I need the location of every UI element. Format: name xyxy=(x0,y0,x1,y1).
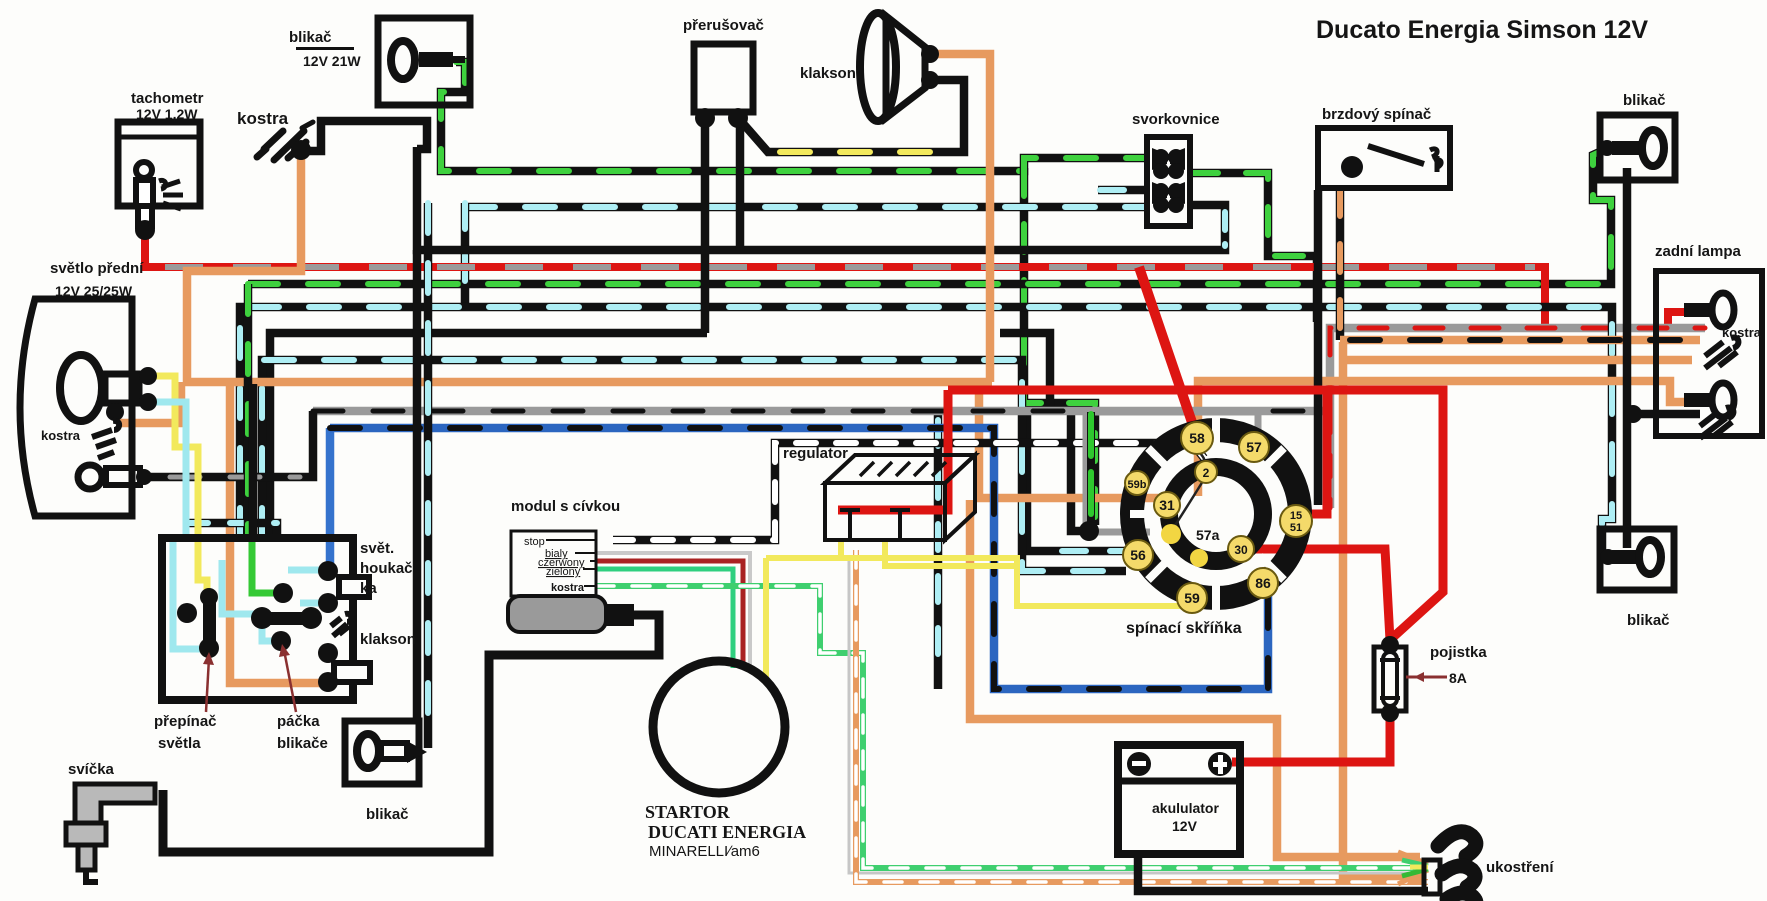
wire black interruptor right pin to bus xyxy=(736,122,745,250)
wire black interruptor left pin down xyxy=(701,118,710,333)
svg-text:12V 21W: 12V 21W xyxy=(303,53,361,69)
coil xyxy=(508,596,606,632)
svg-text:stop: stop xyxy=(524,536,545,548)
wire red fuse to battery plus xyxy=(1232,714,1390,762)
svg-text:86: 86 xyxy=(1255,575,1271,591)
svg-text:tachometr: tachometr xyxy=(131,90,204,107)
svg-text:59: 59 xyxy=(1184,590,1200,606)
svg-text:12V 1,2W: 12V 1,2W xyxy=(136,106,198,122)
svg-text:blikač: blikač xyxy=(366,806,409,823)
blinker rear-right top box xyxy=(1599,115,1675,180)
svg-text:svět.: svět. xyxy=(360,540,394,557)
switchbox kostra ground xyxy=(331,614,351,636)
svg-text:spínací skříňka: spínací skříňka xyxy=(1126,620,1242,637)
svg-text:přepínač: přepínač xyxy=(154,713,217,730)
svg-text:zadní lampa: zadní lampa xyxy=(1655,243,1742,260)
wire red diagonal to ignition 58 xyxy=(1139,267,1197,437)
svg-text:houkač: houkač xyxy=(360,560,413,577)
wire black+yellow interruptor to horn xyxy=(740,80,964,152)
wire orange right rear lamp bus xyxy=(1198,381,1684,496)
brzdovy spinac box xyxy=(1318,128,1450,188)
wire orange vertical to ground bottom right xyxy=(1343,342,1424,876)
wire red 15-51 branch xyxy=(1303,390,1327,514)
wire black+red brake area verticals xyxy=(1314,190,1323,505)
wire zielony module to stator xyxy=(596,569,733,668)
svg-text:31: 31 xyxy=(1159,497,1175,513)
modul s civkou box xyxy=(508,531,634,632)
switchbox handlebar xyxy=(162,538,370,700)
blinker front-left box xyxy=(378,18,470,105)
wire cyan headlight low beam to switch xyxy=(150,402,186,538)
wire czerwony module to stator xyxy=(596,561,743,668)
svg-text:světlo přední: světlo přední xyxy=(50,260,144,277)
svg-text:30: 30 xyxy=(1234,543,1248,557)
svg-text:blikač: blikač xyxy=(289,29,332,46)
wire orange switchbox branch xyxy=(230,382,330,683)
wire cyan inner lower xyxy=(262,622,283,641)
svg-text:klakson: klakson xyxy=(360,631,416,648)
wire black bus y250 kostra to terminal block right xyxy=(417,147,1225,250)
wire black+orange brake switch drop xyxy=(1340,188,1700,340)
svg-text:12V 25/25W: 12V 25/25W xyxy=(55,283,133,299)
wire cyan stub to terminal block xyxy=(1098,186,1147,195)
ignition switch rings xyxy=(1130,418,1300,610)
wire yellow regulator to ignition 59 xyxy=(766,539,1190,684)
svg-text:blikače: blikače xyxy=(277,735,328,752)
rear lamp upper bulb xyxy=(1684,303,1710,317)
wire black bus y333 from switch to ignition xyxy=(270,333,707,538)
wire gray thin to ground xyxy=(849,556,1424,873)
wire black bundle vertical xyxy=(249,384,258,538)
wire black+cyan bus y360 to ignition 56 xyxy=(262,360,1126,571)
svg-text:svíčka: svíčka xyxy=(68,761,115,778)
wire red 30 to fuse xyxy=(1250,549,1390,640)
blinker rear-left box xyxy=(345,721,427,784)
svg-text:STARTOR: STARTOR xyxy=(645,802,731,822)
wire orange horn to right side xyxy=(931,54,990,382)
wire black battery minus to ground xyxy=(1138,854,1428,891)
svg-text:DUCATI ENERGIA: DUCATI ENERGIA xyxy=(648,822,806,842)
svg-text:svorkovnice: svorkovnice xyxy=(1132,111,1220,128)
prerusovac box xyxy=(694,44,753,128)
wire black bracket to 57a dot xyxy=(1071,409,1086,531)
wire black loop at ignition xyxy=(1000,333,1050,409)
svg-text:modul s cívkou: modul s cívkou xyxy=(511,498,620,515)
wire kostra green+white module to ground xyxy=(596,586,1428,868)
wire green vertical to ignition gray node xyxy=(1024,168,1095,525)
wire green bus y284 to rear right blinker xyxy=(248,150,1611,284)
wire black+cyan drop left of ignition xyxy=(934,411,943,689)
wire black+white stop wire module to ignition xyxy=(613,443,1204,540)
wire yellow inner xyxy=(198,538,207,630)
arrow prepinac svetla xyxy=(203,644,296,712)
tachometr box xyxy=(118,122,200,240)
wire black+cyan bus y207 to terminal block xyxy=(465,203,1147,307)
svg-text:MINARELLI∕am6: MINARELLI∕am6 xyxy=(649,843,760,860)
svg-text:světla: světla xyxy=(158,735,201,752)
svg-text:Ducato Energia Simson 12V: Ducato Energia Simson 12V xyxy=(1316,16,1648,44)
svg-text:kostra: kostra xyxy=(41,428,81,443)
wire orange regulator-battery branch xyxy=(970,500,1420,857)
parking lamp xyxy=(78,465,102,489)
wire red regulator charging xyxy=(838,390,948,510)
pojistka fuse xyxy=(1374,636,1447,722)
wire black bracket to 56 xyxy=(1027,409,1131,551)
wire yellow headlight high beam to switch xyxy=(150,376,198,538)
svg-text:57a: 57a xyxy=(1196,527,1220,543)
ignition terminals xyxy=(1123,422,1312,613)
stator circle xyxy=(653,661,785,793)
wire black branch to rear lamp ground xyxy=(1627,410,1700,419)
kostra top ground symbol xyxy=(257,122,313,160)
svorkovnice terminal block xyxy=(1147,137,1190,226)
headlight reflector xyxy=(20,299,157,516)
wire cyan to houkac xyxy=(288,567,328,574)
svg-text:56: 56 xyxy=(1130,547,1146,563)
svicka spark plug xyxy=(66,784,155,882)
rear lamp lower bulb xyxy=(1684,393,1710,407)
wire black kostra to front blinker xyxy=(300,121,427,151)
battery box xyxy=(1118,745,1240,854)
wire black+gray parking light feed xyxy=(150,411,313,477)
svg-text:brzdový spínač: brzdový spínač xyxy=(1322,106,1431,123)
svg-text:kostra: kostra xyxy=(1722,325,1762,340)
svg-text:59b: 59b xyxy=(1128,479,1147,491)
wire blue horn button to ignition 86 xyxy=(330,428,1268,689)
rear lamp upper ground xyxy=(1705,337,1738,368)
svg-text:blikač: blikač xyxy=(1627,612,1670,629)
wire gray+red to rear lamp xyxy=(1330,328,1705,411)
svg-text:12V: 12V xyxy=(1172,818,1198,834)
wire black module coil to spark plug line xyxy=(163,615,659,852)
wire bialy module to stator xyxy=(596,553,750,670)
wire black to rear-left blinker from switch xyxy=(413,250,422,721)
ignition terminal numbers xyxy=(1128,430,1303,606)
wire orange to ignition 31 xyxy=(979,382,1158,498)
wire red top run to fuse xyxy=(948,390,1443,640)
svg-text:kostra: kostra xyxy=(551,582,585,594)
wire cyan small jog in switchbox area xyxy=(186,523,277,538)
svg-text:akululator: akululator xyxy=(1152,800,1219,816)
svg-text:kostra: kostra xyxy=(237,109,289,128)
svg-text:regulator: regulator xyxy=(783,445,848,462)
wire green inner xyxy=(252,538,278,593)
wire orange main bus to rear lamp xyxy=(187,155,992,382)
wire cyan inner left xyxy=(173,538,213,649)
wire green overlay at ignition xyxy=(1087,412,1095,528)
svg-text:klakson: klakson xyxy=(800,65,856,82)
wire red tachometr drop xyxy=(141,232,149,267)
wire green svorkovnice right to brake switch area xyxy=(1190,173,1317,322)
headlight kostra ground xyxy=(92,421,119,458)
wire black right blinker column xyxy=(1623,168,1632,548)
klakson horn symbol xyxy=(860,13,939,121)
wire orange+white to ground xyxy=(856,550,1428,882)
wire gray ignition loop xyxy=(1086,412,1258,532)
svg-text:blikač: blikač xyxy=(1623,92,1666,109)
wire cyan drop to rear-left blinker xyxy=(424,203,433,748)
wire cyan to houkac lower xyxy=(300,600,328,607)
svg-text:přerušovač: přerušovač xyxy=(683,17,764,34)
blinker front-left lamp xyxy=(391,41,465,79)
arrow packa blikace xyxy=(284,650,296,712)
zadni lampa box xyxy=(1624,271,1762,438)
svg-text:15: 15 xyxy=(1290,510,1302,522)
wire orange rear lamp middle bus xyxy=(1343,356,1692,365)
wire red+gray headlight main bus xyxy=(145,232,1684,328)
svg-text:2: 2 xyxy=(1203,466,1210,480)
wire gray+black bus y411 xyxy=(313,407,1330,416)
wire black+green bundle vertical xyxy=(244,284,253,538)
ignition link lines xyxy=(1174,452,1205,527)
blinker rear-right bottom box xyxy=(1600,529,1674,590)
svg-text:58: 58 xyxy=(1189,430,1205,446)
svg-text:57: 57 xyxy=(1246,439,1262,455)
svg-text:ukostření: ukostření xyxy=(1486,859,1554,876)
switchbox inner wires xyxy=(173,538,328,649)
svg-text:pojistka: pojistka xyxy=(1430,644,1487,661)
wire orange headlight kostra branch xyxy=(118,382,181,423)
ukostreni ground symbol xyxy=(1438,832,1476,901)
svg-text:zielony: zielony xyxy=(546,566,581,578)
svg-text:páčka: páčka xyxy=(277,713,320,730)
wire cyan inner mid xyxy=(222,560,258,614)
svg-text:ka: ka xyxy=(360,580,377,597)
svg-text:51: 51 xyxy=(1290,522,1302,534)
wire black+green from front blinker to terminal block xyxy=(441,62,1147,171)
wire black+cyan bus y307 to lower right blinker xyxy=(240,307,1612,553)
svg-text:8A: 8A xyxy=(1449,670,1467,686)
regulator 3d box xyxy=(825,455,975,540)
rear lamp lower ground xyxy=(1700,407,1733,438)
ukostreni converging wires xyxy=(1398,852,1440,894)
